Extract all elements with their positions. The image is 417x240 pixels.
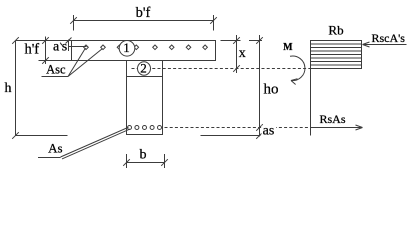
As leader double line (38, 127, 130, 159)
web inner line (compression zone boundary) (127, 76, 163, 78)
dimension b'f line (70, 15, 217, 31)
svg-text:s: s (62, 39, 67, 54)
as bottom reference line (201, 135, 261, 137)
svg-text:RscA's: RscA's (371, 31, 405, 45)
svg-text:b'f: b'f (136, 5, 151, 21)
stress block lever vertical (310, 41, 312, 136)
svg-text:h: h (5, 81, 12, 96)
svg-text:Rb: Rb (328, 23, 343, 38)
dimension h'f line (39, 37, 72, 65)
svg-text:As: As (48, 141, 62, 156)
svg-text:x: x (239, 46, 246, 61)
node 2 circle (138, 62, 151, 75)
svg-text:b: b (140, 148, 147, 163)
svg-text:Asc: Asc (46, 63, 66, 77)
svg-text:M: M (283, 42, 293, 53)
svg-text:h'f: h'f (24, 42, 39, 58)
dimension ho vertical (256, 35, 263, 139)
dimension x vertical (233, 35, 240, 73)
RscA's arrow (363, 42, 407, 47)
svg-text:ho: ho (264, 82, 279, 98)
svg-text:1: 1 (123, 40, 130, 55)
flange outline (72, 41, 216, 61)
dashed tension steel axis line (165, 127, 311, 129)
dimension h extension + line (12, 37, 71, 139)
svg-text:as: as (263, 124, 275, 139)
Asc leader lines (42, 48, 103, 77)
node 1 circle (119, 41, 135, 57)
svg-text:RsAs: RsAs (319, 112, 345, 126)
web (127, 61, 163, 135)
dashed neutral axis line (132, 68, 311, 70)
tension rebar circles (128, 126, 162, 130)
RsAs arrow (311, 125, 363, 130)
stress block Rb hatched (311, 41, 362, 69)
x dimension reference segments (221, 40, 263, 42)
label as (262, 126, 277, 136)
svg-text:2: 2 (140, 60, 147, 75)
svg-text:a: a (53, 39, 60, 54)
dimension b line (123, 154, 168, 168)
moment arc M (290, 56, 305, 84)
compression rebar diamonds in flange (84, 45, 208, 50)
dimension a's tick + leader (66, 38, 87, 52)
